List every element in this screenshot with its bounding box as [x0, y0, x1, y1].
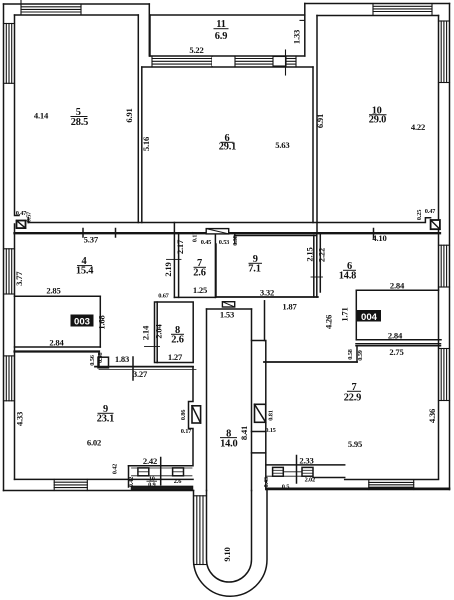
balcony window dim tick [285, 50, 287, 75]
left vestibule door box 1 midline [138, 471, 149, 473]
window left wall upper [4, 23, 15, 25]
corridor 8.41 tick [252, 452, 266, 454]
svg-text:1.33: 1.33 [292, 30, 302, 44]
svg-text:0.9: 0.9 [148, 482, 155, 489]
svg-text:003: 003 [74, 317, 90, 328]
shaft box right diagonal [255, 404, 266, 422]
shaft box right of corridor [255, 404, 266, 422]
svg-text:14.8: 14.8 [339, 271, 356, 282]
balcony window hatch segment 1 [152, 58, 212, 60]
svg-text:6.91: 6.91 [124, 108, 134, 122]
svg-text:3.77: 3.77 [14, 271, 24, 286]
left vestibule threshold (dark) [132, 486, 193, 489]
svg-text:29.0: 29.0 [369, 115, 386, 126]
room 6(14.8) bottom wall / 004 top [356, 289, 438, 291]
middle wall upper line left tick [27, 218, 29, 223]
svg-text:4.10: 4.10 [372, 233, 386, 243]
svg-text:3.27: 3.27 [133, 369, 148, 379]
svg-text:0.67: 0.67 [158, 293, 169, 300]
svg-text:15.4: 15.4 [76, 266, 93, 277]
room 7 left wall [178, 233, 180, 297]
svg-text:4.36: 4.36 [427, 408, 437, 423]
dim tick between 2.15 and 2.22 [311, 276, 323, 278]
svg-text:0.86: 0.86 [180, 409, 187, 420]
room 9(23.1) top wall right part [95, 366, 193, 368]
wall between room 5 and room 6 (right line) [141, 67, 143, 223]
svg-text:2.75: 2.75 [389, 347, 403, 357]
window bottom-left [53, 479, 55, 490]
room 5 interior left wall [15, 15, 20, 216]
window top-right: frame [372, 4, 374, 15]
window left wall middle [4, 248, 15, 250]
svg-text:6.02: 6.02 [87, 438, 101, 448]
room 7 bottom wall [174, 296, 215, 298]
svg-text:0.59: 0.59 [357, 350, 364, 360]
left vestibule left edge [128, 466, 130, 487]
svg-text:4.22: 4.22 [411, 122, 425, 132]
svg-text:1.87: 1.87 [282, 302, 297, 312]
left vestibule dim line 2.42 [160, 458, 162, 485]
svg-text:0.58: 0.58 [97, 353, 104, 363]
vent box top-left with diagonal [17, 221, 26, 229]
svg-text:0.58: 0.58 [347, 349, 354, 359]
right vestibule step edge [313, 477, 345, 479]
svg-text:5.22: 5.22 [189, 45, 203, 55]
left vestibule door box 1 [138, 468, 149, 476]
left vestibule door box 2 [173, 468, 184, 476]
svg-text:0.47: 0.47 [425, 208, 436, 215]
svg-text:2.6: 2.6 [171, 335, 183, 346]
jog step down right of corridor [356, 346, 358, 362]
svg-text:5.95: 5.95 [348, 439, 362, 449]
middle wall lower line [15, 232, 441, 234]
label box 004 [357, 310, 381, 323]
svg-text:1.53: 1.53 [220, 310, 234, 320]
svg-text:0.81: 0.81 [267, 410, 274, 420]
door tick on room6-14.8 top [373, 229, 375, 239]
svg-text:2.42: 2.42 [143, 456, 157, 466]
corridor 003 top wall [15, 295, 101, 297]
door symbol on room9 top wall [206, 229, 229, 234]
door tick b on room4 top [115, 229, 117, 238]
room 6(14.8) left wall [319, 233, 321, 292]
room 9 (7.1) top wall [235, 235, 317, 237]
shaft box left diagonal [192, 406, 201, 423]
bottom interior wall left section [15, 478, 194, 480]
outer wall left [3, 4, 5, 491]
wall band below 004 line2 [356, 345, 441, 347]
room 10 interior top wall [317, 15, 439, 17]
balcony window mullion box 1 [212, 57, 235, 66]
right vestibule bottom edge [266, 475, 313, 477]
svg-text:2.02: 2.02 [305, 477, 315, 484]
room 9 bottom wall [216, 296, 318, 298]
corridor 003 right wall [99, 296, 101, 347]
room 9 top-left notch tick [234, 234, 236, 243]
window top-left: frame [20, 1, 22, 15]
svg-text:004: 004 [361, 312, 378, 323]
svg-text:9.10: 9.10 [222, 547, 232, 561]
room 9 right wall outer line [316, 233, 318, 297]
bottom interior wall right section [345, 479, 439, 481]
corridor left wall outer line with shaft notch [189, 367, 194, 466]
outer wall right [449, 4, 451, 490]
dim tick on room8 left wall [145, 346, 160, 348]
room 9 right wall inner line [313, 236, 315, 298]
corridor right outer wall [265, 341, 267, 490]
room 7 right wall [214, 233, 216, 297]
wall band below 004 line1 [356, 343, 441, 345]
wall jog right of balcony [304, 4, 306, 57]
svg-text:0.17: 0.17 [181, 428, 192, 435]
wall between room 6 and room 10 (right line) [316, 16, 318, 234]
left vestibule top line [129, 465, 193, 467]
svg-text:2.14: 2.14 [141, 325, 151, 340]
svg-text:2.6: 2.6 [193, 268, 205, 279]
wall room4 / room7 left line [173, 223, 175, 298]
svg-text:0.42: 0.42 [128, 477, 135, 487]
svg-text:2.84: 2.84 [49, 338, 64, 348]
balcony left interior wall [149, 15, 151, 56]
door tick a on room4 top [82, 229, 84, 238]
svg-text:2.6: 2.6 [174, 478, 182, 485]
window right wall lower [439, 348, 450, 350]
left vestibule hatch row bottom [132, 475, 193, 477]
svg-text:0.5: 0.5 [282, 484, 289, 491]
wall between room 6 and room 10 (left line) [312, 67, 314, 223]
svg-text:2.19: 2.19 [163, 262, 173, 276]
dim tick between 2.17 and 2.19 [167, 258, 182, 260]
label box 003 [71, 315, 94, 328]
middle wall upper line [28, 218, 430, 223]
dim tick 3.27 [132, 357, 134, 380]
svg-text:0.57: 0.57 [26, 211, 33, 222]
room 8 left wall inner line [156, 302, 158, 363]
svg-text:0.38: 0.38 [232, 235, 239, 245]
right vestibule door box 1 [273, 467, 284, 476]
svg-text:4.26: 4.26 [324, 314, 334, 329]
004 bottom wall [356, 339, 441, 341]
right vestibule mid line [283, 471, 302, 473]
right vestibule dim line 2.33 [296, 456, 298, 484]
svg-text:0.43: 0.43 [263, 477, 270, 487]
room 9(23.1) top wall left part [15, 350, 100, 352]
left vestibule door box 2 midline [173, 471, 184, 473]
door symbol near 1.53 [222, 302, 234, 307]
svg-text:5.37: 5.37 [84, 235, 99, 245]
balcony window sill top line [150, 55, 305, 57]
1.33 dim tick top right [300, 19, 305, 21]
svg-text:2.85: 2.85 [46, 286, 60, 296]
svg-text:2.33: 2.33 [299, 456, 313, 466]
room 7(22.9) top wall left part [264, 361, 357, 363]
outer wall top-right block [305, 3, 450, 5]
svg-text:23.1: 23.1 [97, 414, 114, 425]
balcony top wall [150, 14, 305, 16]
U-stair inner wall [207, 491, 252, 583]
corridor right wall upper [251, 309, 253, 491]
step wall right of 003 [98, 352, 100, 367]
svg-text:0.56: 0.56 [89, 354, 96, 365]
window U-stair left wall [194, 495, 207, 497]
svg-text:29.1: 29.1 [219, 142, 236, 153]
svg-text:1.68: 1.68 [97, 314, 107, 329]
U-stair outer wall [194, 490, 268, 597]
right vestibule top line [266, 464, 345, 466]
svg-text:7.1: 7.1 [248, 264, 260, 275]
svg-text:6.9: 6.9 [215, 31, 227, 42]
corridor step to lobby [252, 340, 265, 342]
svg-text:14.0: 14.0 [220, 438, 237, 449]
window left wall lower [4, 355, 15, 357]
svg-text:5.16: 5.16 [141, 136, 151, 151]
right vestibule door box 2 [302, 467, 313, 476]
svg-text:0.53: 0.53 [219, 239, 229, 246]
004 left wall [355, 290, 357, 340]
svg-text:2.84: 2.84 [390, 281, 405, 291]
corridor top wall [207, 308, 252, 310]
window right wall middle [439, 244, 450, 246]
room 5 interior top wall [15, 14, 139, 16]
svg-text:8.41: 8.41 [239, 426, 249, 440]
corridor 003 bottom wall [15, 346, 101, 348]
vent box top-right with diagonal [431, 220, 440, 229]
svg-text:0.25: 0.25 [416, 210, 423, 220]
dim line 3.27 [99, 368, 196, 370]
svg-text:1.25: 1.25 [193, 285, 207, 295]
svg-text:4.33: 4.33 [15, 412, 25, 426]
svg-text:0.45: 0.45 [201, 239, 211, 246]
left vestibule hatch row top [132, 467, 193, 469]
svg-text:2.15: 2.15 [304, 247, 314, 261]
interior right wall [438, 16, 440, 479]
window right wall upper [439, 20, 450, 22]
outer wall top-left block [4, 3, 150, 5]
svg-text:1.71: 1.71 [340, 307, 350, 321]
wall between room 5 and room 6 (left line) [137, 15, 139, 223]
outer wall bottom-right [267, 489, 450, 491]
svg-text:1.83: 1.83 [115, 354, 129, 364]
lobby left wall [264, 301, 266, 341]
left interior wall lower part [14, 224, 16, 479]
balcony window mullion box 2 [273, 57, 286, 67]
shaft box left of corridor [192, 406, 201, 423]
svg-text:2.04: 2.04 [154, 323, 164, 338]
corridor tick upper [252, 431, 266, 433]
svg-text:1.27: 1.27 [168, 352, 183, 362]
svg-text:2.17: 2.17 [175, 239, 185, 254]
svg-text:4.14: 4.14 [34, 111, 49, 121]
balcony window hatch segment 2 [235, 58, 273, 60]
svg-text:0.15: 0.15 [265, 427, 275, 434]
svg-text:22.9: 22.9 [344, 393, 361, 404]
svg-text:2.22: 2.22 [316, 248, 326, 262]
svg-text:2.84: 2.84 [388, 331, 403, 341]
balcony window hatch segment 3 [286, 58, 296, 60]
svg-text:5.63: 5.63 [275, 140, 289, 150]
room 8 (2.6) box [155, 302, 194, 363]
svg-text:0.17: 0.17 [192, 231, 199, 242]
svg-text:28.5: 28.5 [71, 117, 88, 128]
room 6 top interior wall [142, 66, 313, 68]
corridor left inner wall [206, 309, 208, 491]
svg-text:3.32: 3.32 [260, 288, 274, 298]
svg-text:6.91: 6.91 [315, 114, 325, 128]
outer wall bottom-left [4, 490, 194, 492]
wall jog left of balcony [148, 4, 150, 56]
svg-text:0.42: 0.42 [112, 464, 119, 474]
window bottom-right [368, 480, 370, 490]
niche box at step [98, 357, 109, 368]
bottom wall dark band right [266, 487, 450, 489]
room 9 left wall [215, 244, 217, 297]
